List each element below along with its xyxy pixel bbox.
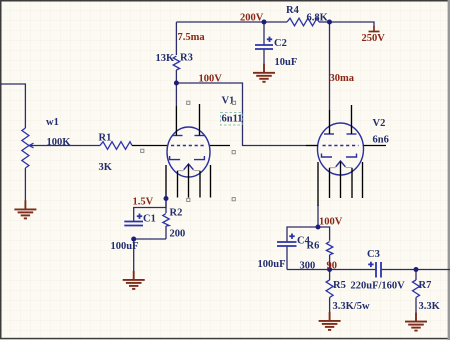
svg-text:30ma: 30ma [330, 73, 355, 84]
junction bottom rail R7 [414, 267, 419, 272]
wire V2 cathode down [317, 205, 319, 227]
wire R6 bottom lead [329, 255, 331, 270]
svg-text:200V: 200V [240, 13, 264, 24]
potentiometer w1 [22, 128, 34, 168]
wire input left [0, 84, 25, 128]
resistor R3 [173, 56, 179, 70]
svg-text:13K: 13K [156, 53, 176, 64]
svg-text:10uF: 10uF [275, 57, 298, 68]
wire R3 bottom lead [175, 70, 177, 83]
svg-text:100K: 100K [47, 137, 72, 148]
svg-text:250V: 250V [362, 33, 386, 44]
tube V1 [167, 127, 210, 177]
junction node 250V rail [327, 20, 332, 25]
svg-text:C2: C2 [274, 38, 287, 49]
capacitor C2 [255, 37, 273, 49]
wire R2 bottom lead [165, 226, 167, 239]
resistor R7 [413, 280, 420, 298]
ground under R5 [319, 312, 341, 330]
wire C4 bottom lead [286, 246, 288, 270]
wire R3 top lead [175, 22, 177, 55]
ground under C1 [123, 271, 145, 289]
svg-text:6n6: 6n6 [373, 135, 389, 146]
wire 200V rail [176, 21, 287, 23]
selection box around 6n11 [221, 113, 243, 126]
wire V1 cathode node to C1 [134, 199, 166, 222]
wire R7 top lead [415, 270, 417, 281]
svg-text:R7: R7 [419, 280, 432, 291]
wire R5 top lead [329, 270, 331, 281]
resistor R1 [100, 142, 132, 150]
tube V1 pins [132, 104, 230, 199]
wire R7 bottom lead [415, 298, 417, 314]
wire R2 top lead [165, 199, 167, 214]
resistor R4 [287, 18, 319, 26]
svg-text:3.3K/5w: 3.3K/5w [333, 301, 370, 312]
wire junction to 250V port [330, 22, 375, 27]
svg-text:w1: w1 [46, 117, 59, 128]
wire C2 top lead [263, 22, 265, 45]
svg-text:6n11: 6n11 [222, 114, 243, 125]
wire C1 bottom node [134, 239, 166, 278]
power port 250V [369, 26, 380, 32]
svg-text:7.5ma: 7.5ma [178, 32, 206, 43]
wire R4 to junction [319, 21, 330, 23]
svg-text:90: 90 [327, 261, 338, 272]
resistor R5 [326, 280, 333, 298]
svg-text:100V: 100V [199, 74, 223, 85]
svg-text:R3: R3 [180, 53, 193, 64]
svg-text:R5: R5 [333, 280, 346, 291]
capacitor C3 [368, 262, 381, 278]
no-erc marker squares [141, 101, 236, 201]
ground under C2 [253, 64, 275, 82]
svg-text:V2: V2 [373, 118, 386, 129]
wire bottom rail right [381, 269, 450, 271]
tube V2 pins [306, 105, 386, 206]
resistor R6 [326, 242, 332, 255]
svg-text:200: 200 [170, 229, 186, 240]
ground under w1 [14, 200, 36, 218]
svg-text:C3: C3 [367, 249, 380, 260]
svg-text:C1: C1 [143, 214, 156, 225]
wire 100V node to C4 [287, 227, 318, 242]
svg-text:100uF: 100uF [258, 259, 286, 270]
svg-text:R2: R2 [170, 208, 183, 219]
svg-text:300: 300 [300, 261, 316, 272]
junction bottom rail R5 [327, 267, 332, 272]
wire w1 bottom to ground [24, 168, 26, 201]
wire R5 bottom lead [329, 298, 331, 313]
svg-text:R1: R1 [99, 133, 112, 144]
wire V1 plate [175, 83, 177, 106]
tube V2 [318, 123, 364, 175]
svg-text:220uF/160V: 220uF/160V [351, 281, 406, 292]
svg-text:C4: C4 [297, 236, 311, 247]
wire wiper w1 to R1 [29, 145, 100, 147]
wire node 100V to V2 grid [176, 83, 306, 146]
svg-text:6.8K: 6.8K [307, 13, 329, 24]
capacitor C1 [124, 214, 143, 226]
wire bottom rail left [287, 269, 376, 271]
svg-text:1.5V: 1.5V [133, 197, 154, 208]
wire C2 bottom lead [263, 49, 265, 64]
capacitor C4 [277, 234, 297, 247]
junction node 200V [262, 20, 267, 25]
svg-text:3K: 3K [99, 162, 113, 173]
junction node 100V right [316, 225, 321, 230]
svg-text:100uF: 100uF [111, 241, 139, 252]
wire 30ma V2 plate [329, 22, 331, 110]
svg-text:R4: R4 [286, 5, 300, 16]
svg-text:100V: 100V [319, 217, 343, 228]
junction node 100V left [174, 81, 179, 86]
ground under R7 [405, 313, 427, 331]
wire 100V node to R6 [318, 227, 330, 241]
svg-text:3.3K: 3.3K [419, 301, 441, 312]
junction V1 cathode [164, 196, 169, 201]
junction C1 bottom [131, 237, 136, 242]
resistor R2 [163, 214, 169, 227]
